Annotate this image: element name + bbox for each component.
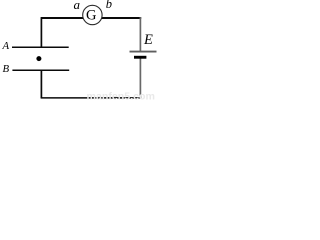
- battery E short thick plate (negative): [134, 56, 146, 59]
- svg-text:B: B: [3, 63, 10, 75]
- svg-text:G: G: [86, 7, 97, 23]
- capacitor plate B: [12, 69, 69, 71]
- wire left vertical upper (to plate A): [40, 17, 42, 47]
- galvanometer U1 circle: [83, 5, 102, 24]
- svg-text:manfen5.com: manfen5.com: [87, 90, 156, 102]
- battery E long plate (positive): [130, 51, 157, 53]
- wire top-right segment: [101, 17, 141, 19]
- svg-text:A: A: [2, 40, 10, 52]
- wire right vertical lower (battery to bottom wire): [139, 58, 141, 98]
- svg-text:E: E: [143, 32, 153, 48]
- charged particle dot between plates: [36, 56, 41, 61]
- background: [0, 0, 159, 102]
- capacitor plate A: [12, 46, 69, 48]
- wire left vertical lower (plate B to bottom wire): [40, 71, 42, 99]
- svg-text:b: b: [106, 0, 112, 11]
- wire bottom: [41, 97, 141, 99]
- wire right vertical upper (to battery): [139, 17, 141, 51]
- wire top-left segment: [41, 17, 84, 19]
- svg-text:a: a: [74, 0, 81, 12]
